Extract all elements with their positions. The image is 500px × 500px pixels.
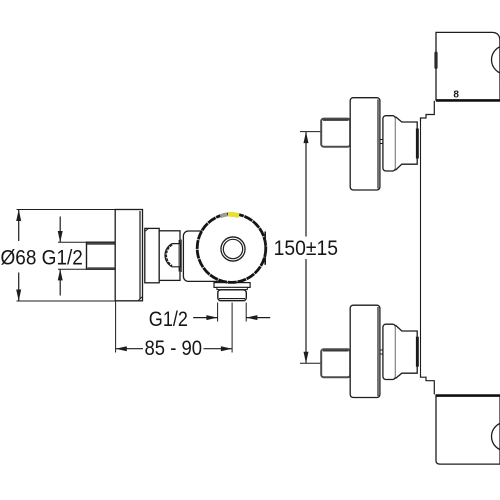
dimension Ø68: dimension line with arrows (16, 210, 21, 302)
dimension 85-90: extension line (wall face) (115, 301, 117, 353)
dimension 85-90: dimension line with arrows (116, 346, 233, 351)
lower supply body (436, 394, 500, 464)
svg-text:85 - 90: 85 - 90 (145, 337, 203, 361)
handle mount housing (rounded, behind knob) (183, 231, 240, 281)
dimension G1/2 (outlet thread): extension lines (217, 303, 219, 322)
upper ring (383, 116, 396, 171)
upper bracket to body (421, 101, 435, 122)
connection ring (side view) (145, 228, 159, 282)
lower body right-edge arc (492, 422, 500, 451)
joint band between housing and handle (179, 240, 181, 273)
upper wall nipple (321, 119, 350, 147)
yellow temperature mark on knob rim (228, 214, 239, 215)
upper shaft bridge (380, 140, 383, 144)
upper cone and union nut silhouette (396, 117, 418, 170)
lower: extension line at nipple centre (300, 362, 321, 364)
upper: extension line at nipple centre (300, 131, 321, 133)
union nut profile (side view) (165, 244, 181, 267)
lower knurl band (416, 337, 419, 367)
dimension G1/2 (outlet thread): dimension line with arrows (193, 315, 270, 320)
upper knurl band (416, 129, 419, 159)
long edge line between unions (420, 122, 422, 373)
lower shaft bridge (380, 350, 383, 354)
svg-text:G1/2: G1/2 (149, 307, 188, 331)
lower ring (383, 324, 396, 379)
svg-text:150±15: 150±15 (274, 236, 338, 260)
upper supply body (436, 32, 500, 100)
shower outlet collar (214, 283, 250, 288)
grey temperature mark on knob rim (220, 214, 227, 216)
dimension 85-90: outlet centreline (231, 303, 233, 353)
knob centre cap circles (221, 237, 245, 261)
dimension Ø68: extension lines (17, 209, 143, 211)
upper rosette (350, 98, 380, 190)
wall nipple G1/2 (side view, left) (87, 242, 116, 269)
dimension G1/2 (left nipple): arrows (58, 217, 87, 296)
lower wall nipple (321, 349, 350, 377)
escutcheon rosette Ø68 (side view, left) (115, 210, 142, 301)
thermostat knob (side view circle) (197, 214, 266, 283)
outlet step (217, 287, 247, 289)
upper body right-edge arc (492, 46, 500, 75)
dimension 150±15: dimension line with arrows (304, 132, 309, 364)
outlet thread G1/2 (218, 290, 247, 301)
svg-text:8: 8 (453, 90, 459, 101)
lower bracket to body (421, 373, 435, 394)
weld blob on upper body left edge (434, 52, 437, 70)
cartridge housing block (side view) (159, 231, 180, 281)
lower cone and union nut silhouette (396, 325, 418, 378)
svg-text:Ø68 G1/2: Ø68 G1/2 (1, 246, 83, 269)
lower rosette (350, 305, 380, 397)
